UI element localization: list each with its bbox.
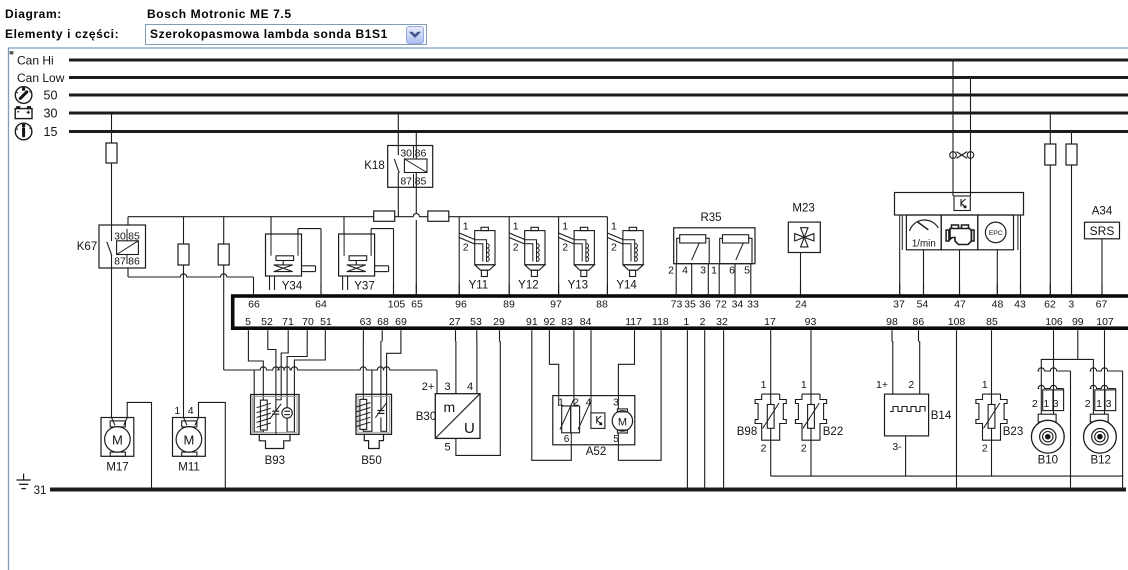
wire rail to fuse F3 to heater supply: [223, 217, 225, 370]
wire bus30 to fuse F1 to relay K67 pin30: [111, 113, 113, 225]
label B98 pin2: [761, 443, 767, 455]
svg-text:5: 5: [744, 265, 750, 277]
instrument cluster housing: [895, 193, 1024, 216]
svg-text:2: 2: [982, 443, 988, 455]
select box Szerokopasmowa lambda sonda B1S1: [145, 24, 427, 45]
wire ECU pin70 to B93 cell circle: [287, 341, 307, 408]
svg-text:65: 65: [411, 299, 423, 311]
fuel injector Y11: [459, 217, 495, 295]
svg-text:24: 24: [795, 299, 807, 311]
svg-text:72: 72: [715, 299, 727, 311]
svg-text:37: 37: [893, 299, 905, 311]
ECU top pin ticks: [254, 284, 1103, 295]
svg-text:69: 69: [395, 316, 407, 328]
engine symbol box: [941, 215, 978, 250]
svg-text:30: 30: [44, 107, 58, 121]
knock sensor shield header: [1041, 359, 1093, 371]
svg-text:118: 118: [652, 316, 669, 328]
svg-text:1: 1: [761, 379, 767, 391]
wire ECU pin98 to B14: [892, 341, 894, 394]
svg-text:2: 2: [1032, 398, 1038, 410]
wire B30 pin5 to ECU pin 29: [456, 341, 500, 455]
wire rail to fuse F2 to motor M11: [183, 217, 185, 418]
svg-text:50: 50: [44, 89, 58, 103]
fuel injector Y12: [509, 217, 545, 295]
wire Can Low down to instrument cluster: [970, 78, 972, 197]
svg-text:70: 70: [302, 316, 314, 328]
svg-text:30: 30: [400, 148, 412, 160]
header label Elementy i czesci: [5, 27, 119, 41]
electric motor M11: [173, 418, 206, 457]
svg-text:107: 107: [1096, 316, 1114, 328]
cluster side walls: [900, 215, 1021, 250]
relay K67: [99, 225, 146, 268]
svg-text:71: 71: [282, 316, 294, 328]
wire A34 to ECU pin 67: [1101, 239, 1103, 294]
svg-text:73: 73: [671, 299, 683, 311]
bus label 15: [44, 125, 58, 139]
label B14 pin 3-: [892, 441, 902, 453]
svg-text:6: 6: [729, 265, 735, 277]
relay K18 label: [364, 160, 384, 172]
labels B30 pins 2+ 3 4: [422, 381, 473, 393]
wire rail to valve Y34: [270, 217, 272, 234]
lambda sensor B50: [356, 394, 392, 448]
svg-text:5: 5: [445, 442, 451, 454]
svg-text:Y13: Y13: [568, 280, 588, 292]
svg-text:2: 2: [562, 242, 568, 254]
svg-text:53: 53: [470, 316, 482, 328]
wire ECU pin99 to knock sensor shield: [1077, 341, 1079, 359]
svg-text:2+: 2+: [422, 381, 435, 393]
wire ECU pin53 to B30: [476, 341, 478, 394]
svg-text:B23: B23: [1003, 426, 1023, 438]
label B23: [1003, 426, 1023, 438]
fuse F7: [1066, 144, 1077, 165]
wire M17 to ground: [127, 402, 151, 487]
knock sensor B12: [1084, 341, 1123, 488]
label B93: [265, 455, 285, 467]
air mass meter B30: [435, 394, 480, 439]
svg-text:4: 4: [682, 265, 688, 277]
svg-text:1: 1: [1043, 398, 1049, 410]
battery icon terminal 30: [15, 107, 32, 119]
wire rail to valve Y37: [343, 217, 345, 234]
ECU control unit band: [233, 296, 1128, 328]
label Y34: [282, 281, 303, 293]
fan motor M23: [788, 222, 820, 252]
svg-text:2: 2: [668, 265, 674, 277]
svg-text:B93: B93: [265, 455, 285, 467]
wire ECU pin2 to ground: [704, 341, 706, 488]
svg-text:Can Low: Can Low: [17, 71, 65, 85]
svg-text:91: 91: [526, 316, 538, 328]
label Y13: [568, 280, 588, 292]
svg-text:K18: K18: [364, 160, 384, 172]
svg-text:M11: M11: [178, 462, 200, 474]
wire ECU pin93 through sensor B22: [810, 341, 812, 476]
ground bus 31: [50, 488, 1126, 492]
wire ECU pin17 through sensor B98: [770, 341, 772, 476]
label M11: [178, 462, 200, 474]
svg-text:66: 66: [248, 299, 260, 311]
fuse F4 on rail: [374, 211, 395, 221]
svg-text:A34: A34: [1092, 206, 1113, 218]
svg-text:32: 32: [716, 316, 728, 328]
svg-text:U: U: [464, 420, 475, 437]
EPC lamp box: [978, 215, 1014, 250]
ECU bottom pin ticks: [248, 330, 1104, 341]
svg-text:SRS: SRS: [1090, 224, 1115, 238]
wire bus15 to fuse F7 to ECU pin 3: [1071, 132, 1073, 295]
header value Bosch Motronic ME 7.5: [147, 7, 292, 21]
bus label 30: [44, 107, 58, 121]
wire ECU pin83 to A52 pin2: [573, 341, 575, 396]
label B30 pin 5: [445, 442, 451, 454]
svg-text:M: M: [112, 432, 123, 447]
svg-text:1: 1: [513, 221, 519, 233]
twisted pair symbol on CAN wires: [950, 152, 974, 159]
svg-text:2: 2: [513, 242, 519, 254]
knock sensor B10: [1031, 341, 1070, 488]
label Y12: [518, 280, 538, 292]
wire bus15 to relay K18 pin86: [415, 132, 417, 146]
wire K67 pin87 down to motor M17: [111, 268, 113, 418]
tachometer gauge box 1/min: [906, 215, 941, 250]
ECU top pin numbers: [248, 299, 1107, 311]
wire K67 pin86 to ECU pin 66: [128, 268, 254, 284]
svg-text:5: 5: [245, 316, 251, 328]
svg-text:Y34: Y34: [282, 281, 303, 293]
wire M11 pin4 to ground: [199, 402, 226, 487]
wires R35 pins to ECU pins 73 35 36 72 34 33: [676, 264, 751, 284]
svg-text:105: 105: [388, 299, 406, 311]
svg-text:93: 93: [805, 316, 817, 328]
wire ECU pin85 through sensor B23: [991, 341, 993, 476]
solenoid valve Y34 (wire to ECU pin 64): [266, 229, 322, 295]
label B98: [737, 426, 757, 438]
svg-text:84: 84: [580, 316, 592, 328]
svg-text:1: 1: [801, 379, 807, 391]
label B23 pin1: [982, 379, 988, 391]
svg-text:B14: B14: [931, 410, 952, 422]
fuse F1: [106, 143, 117, 163]
svg-text:K67: K67: [77, 241, 97, 253]
relay K67 switch contact: [107, 225, 112, 268]
temperature sensor B98: [755, 394, 786, 440]
svg-text:68: 68: [377, 316, 389, 328]
label R35: [700, 212, 721, 224]
fuel injector Y14: [607, 217, 643, 295]
svg-text:M: M: [183, 432, 194, 447]
label M17: [106, 462, 128, 474]
ECU bottom pin numbers: [245, 316, 1114, 328]
svg-text:R35: R35: [700, 212, 721, 224]
svg-text:43: 43: [1014, 299, 1026, 311]
label 31: [34, 485, 47, 497]
svg-text:M17: M17: [106, 462, 128, 474]
svg-text:Y12: Y12: [518, 280, 538, 292]
svg-text:2: 2: [700, 316, 706, 328]
heater supply rail from fuse F3 to sensor B30: [224, 367, 437, 394]
relay K18 switch contact: [394, 146, 416, 174]
svg-text:1: 1: [562, 221, 568, 233]
bus wire 15: [69, 130, 1128, 133]
svg-text:1/min: 1/min: [912, 239, 936, 250]
wire B14 pin3 to sensor ground rail: [905, 436, 907, 476]
wire ECU pin108 to ground: [956, 341, 958, 488]
wire ECU pin86 to B14: [919, 341, 921, 394]
svg-text:34: 34: [732, 299, 744, 311]
wire ECU pin117 to A52 pin3: [618, 341, 634, 396]
svg-text:Y14: Y14: [616, 280, 637, 292]
wire K18 pin87 to rail: [397, 173, 399, 217]
wires cluster to ECU pins 37 54 47 48 43: [900, 250, 1021, 294]
wire A52 pin5 to ECU pin118: [618, 341, 661, 460]
svg-text:2: 2: [1085, 398, 1091, 410]
bus label Can Low: [17, 71, 65, 85]
svg-text:1: 1: [611, 221, 617, 233]
bus label 50: [44, 89, 58, 103]
crankshaft sensor B14: [885, 394, 929, 436]
svg-text:29: 29: [493, 316, 505, 328]
svg-text:85: 85: [986, 316, 998, 328]
svg-text:B50: B50: [361, 455, 381, 467]
fuse F5 on rail: [428, 211, 449, 221]
wire ECU pin32 to ground: [723, 341, 725, 488]
svg-text:B98: B98: [737, 426, 757, 438]
fuse F3: [218, 244, 229, 265]
svg-text:92: 92: [544, 316, 556, 328]
svg-text:3: 3: [445, 381, 451, 393]
svg-text:98: 98: [886, 316, 898, 328]
svg-text:4: 4: [467, 381, 473, 393]
svg-text:67: 67: [1096, 299, 1108, 311]
label A34: [1092, 206, 1113, 218]
relay K18: [388, 146, 433, 188]
electric motor M17: [101, 418, 134, 457]
svg-text:Y11: Y11: [469, 280, 489, 292]
svg-text:1: 1: [463, 221, 469, 233]
sensor ground rail: [771, 475, 1124, 477]
svg-text:33: 33: [747, 299, 759, 311]
svg-text:31: 31: [34, 485, 47, 497]
svg-text:B22: B22: [823, 426, 843, 438]
svg-text:1: 1: [1096, 398, 1102, 410]
bus label Can Hi: [17, 54, 54, 68]
temperature sensor B23: [976, 394, 1007, 440]
solenoid valve Y37 (wire to ECU pin 105): [339, 229, 394, 295]
throttle unit A52: [553, 396, 635, 445]
svg-text:86: 86: [913, 316, 925, 328]
svg-text:86: 86: [128, 256, 140, 268]
wire ECU pin84 to A52 pin4: [590, 341, 592, 396]
fuse F2: [178, 244, 189, 265]
svg-text:2: 2: [801, 443, 807, 455]
terminal 15 ignition-on icon: [15, 123, 32, 140]
fuel injector Y13: [559, 217, 595, 295]
wire ECU pin92 to A52 pin1: [549, 341, 558, 396]
label Y11: [469, 280, 489, 292]
svg-text:M23: M23: [792, 203, 814, 215]
svg-text:3: 3: [700, 265, 706, 277]
label M23: [792, 203, 814, 215]
label A52: [586, 446, 606, 458]
temperature sensor B22: [795, 394, 826, 440]
svg-text:88: 88: [596, 299, 608, 311]
bus wire Can Hi: [69, 59, 1128, 62]
svg-text:47: 47: [954, 299, 966, 311]
relay K67 label: [77, 241, 97, 253]
label B50: [361, 455, 381, 467]
label B22: [823, 426, 843, 438]
wire ECU pin68 to B50 cell: [380, 341, 382, 411]
wire ECU pin71 to B93: [281, 341, 288, 400]
wire ECU pin27 to B30: [455, 341, 457, 394]
wire ECU pin91 to A52 pin6: [532, 341, 572, 460]
svg-text:1: 1: [711, 265, 717, 277]
svg-text:35: 35: [684, 299, 696, 311]
label B22 pin1: [801, 379, 807, 391]
svg-text:B30: B30: [416, 411, 436, 423]
wire ECU pin52 to B93 cell: [268, 341, 276, 411]
label B22 pin2: [801, 443, 807, 455]
svg-text:117: 117: [625, 316, 642, 328]
label B98 pin1: [761, 379, 767, 391]
label B12: [1090, 455, 1110, 467]
wire ECU pin51 to B93: [287, 341, 325, 432]
svg-text:1: 1: [683, 316, 689, 328]
svg-text:63: 63: [360, 316, 372, 328]
svg-text:108: 108: [948, 316, 966, 328]
svg-text:2: 2: [761, 443, 767, 455]
wire bus30 to fuse F6 to ECU pin 62: [1049, 113, 1051, 294]
svg-text:Can Hi: Can Hi: [17, 54, 54, 68]
bus wire 30: [69, 112, 1128, 115]
ground symbol terminal 31: [17, 474, 31, 489]
svg-text:m: m: [444, 399, 456, 415]
svg-text:B10: B10: [1038, 455, 1058, 467]
svg-text:54: 54: [917, 299, 929, 311]
wire ECU pin63 to B50 heater: [362, 341, 364, 399]
svg-text:51: 51: [320, 316, 332, 328]
svg-text:EPC: EPC: [989, 230, 1003, 237]
label B10: [1038, 455, 1058, 467]
svg-text:97: 97: [550, 299, 562, 311]
svg-text:4: 4: [188, 405, 194, 417]
label Y14: [616, 280, 637, 292]
svg-text:62: 62: [1044, 299, 1056, 311]
wire M23 to ECU pin 24: [800, 253, 802, 295]
svg-text:2: 2: [463, 242, 469, 254]
svg-text:48: 48: [992, 299, 1004, 311]
svg-text:17: 17: [764, 316, 776, 328]
header label Diagram:: [5, 7, 62, 21]
svg-text:2: 2: [611, 242, 617, 254]
label B23 pin2: [982, 443, 988, 455]
resistor pack R35: [668, 228, 755, 277]
svg-text:A52: A52: [586, 446, 606, 458]
svg-text:64: 64: [315, 299, 327, 311]
svg-text:87: 87: [114, 256, 126, 268]
label Y37: [354, 281, 374, 293]
svg-text:52: 52: [261, 316, 273, 328]
svg-text:87: 87: [400, 176, 412, 188]
wire ECU pin1 to ground: [686, 341, 688, 488]
label B30: [416, 411, 436, 423]
svg-text:27: 27: [449, 316, 461, 328]
svg-text:3-: 3-: [892, 441, 902, 453]
wire heater rail to B50 heater supply: [363, 370, 372, 431]
wire ECU pin5 to B93 heater: [248, 341, 263, 400]
svg-text:1: 1: [174, 405, 180, 417]
labels M11 pins 1 4: [174, 405, 193, 417]
svg-text:B12: B12: [1090, 455, 1110, 467]
svg-text:3: 3: [1068, 299, 1074, 311]
svg-text:106: 106: [1045, 316, 1063, 328]
wire K67 pin85 up to main rail: [127, 217, 129, 225]
fuse F6: [1045, 144, 1056, 165]
bus wire Can Low: [69, 76, 1128, 79]
svg-text:1+: 1+: [876, 379, 888, 391]
svg-text:Y37: Y37: [354, 281, 374, 293]
svg-text:2: 2: [908, 379, 914, 391]
wire heater rail to B93 heater supply: [254, 370, 263, 432]
svg-text:3: 3: [1053, 398, 1059, 410]
svg-text:96: 96: [455, 299, 467, 311]
svg-text:1: 1: [982, 379, 988, 391]
airbag unit A34 SRS: [1085, 222, 1120, 239]
label B14: [931, 410, 952, 422]
svg-text:36: 36: [699, 299, 711, 311]
lambda sensor B93: [251, 395, 299, 449]
bus wire 50: [69, 94, 1128, 97]
svg-text:83: 83: [561, 316, 573, 328]
svg-text:99: 99: [1072, 316, 1084, 328]
wire Can Hi down to instrument cluster: [952, 60, 954, 196]
svg-text:3: 3: [1106, 398, 1112, 410]
svg-text:6: 6: [564, 434, 570, 445]
wire ECU pin69 to B50: [381, 341, 401, 431]
svg-text:M: M: [618, 416, 627, 428]
wire K18 pin85 to ECU pin 65: [415, 173, 417, 295]
svg-text:15: 15: [44, 125, 58, 139]
diagnostic K symbol in cluster: [954, 196, 970, 211]
terminal 50 ignition-start icon: [15, 87, 32, 104]
svg-text:89: 89: [503, 299, 515, 311]
labels B14 pins 1+ 2: [876, 379, 914, 391]
wire bus30 to relay K18 pin30: [397, 113, 399, 146]
main supply rail from relay K67: [128, 214, 607, 217]
